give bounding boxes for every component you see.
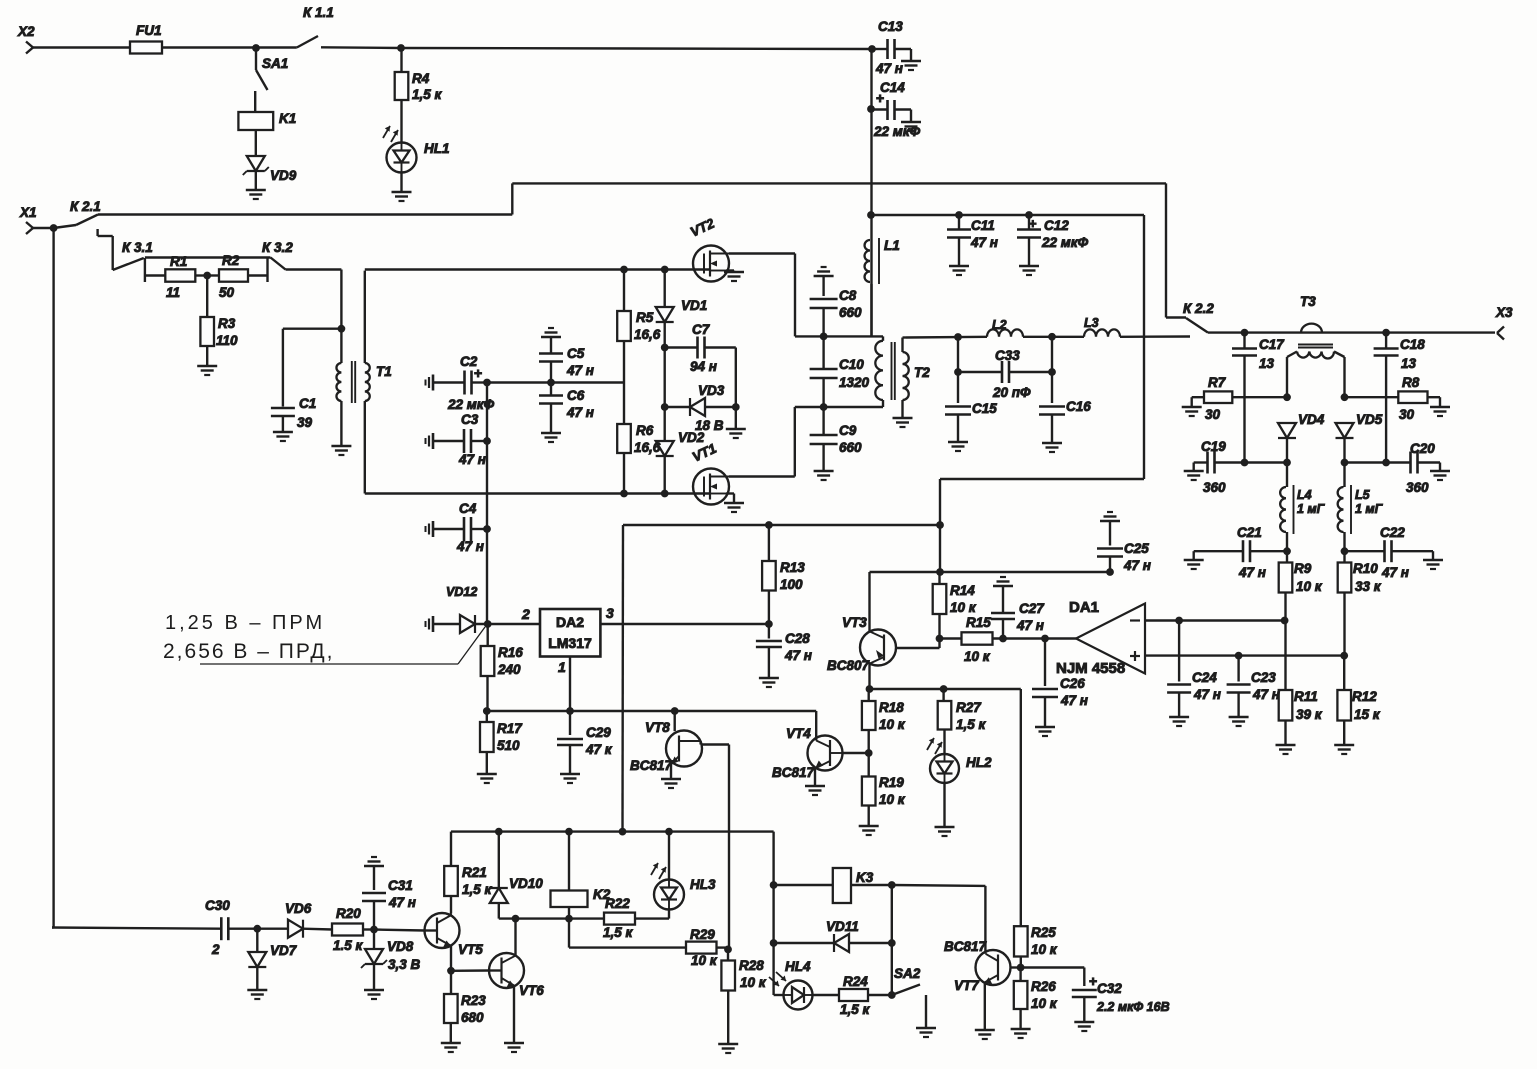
svg-text:C4: C4 [459, 501, 477, 516]
svg-text:R3: R3 [218, 316, 236, 331]
svg-text:C8: C8 [839, 288, 857, 303]
svg-text:C3: C3 [461, 412, 479, 427]
svg-text:FU1: FU1 [136, 23, 162, 38]
svg-text:L3: L3 [1084, 316, 1099, 330]
svg-text:VD9: VD9 [270, 168, 297, 183]
svg-text:L2: L2 [992, 318, 1007, 332]
svg-text:1,5 к: 1,5 к [956, 717, 987, 732]
svg-text:660: 660 [839, 305, 862, 320]
svg-text:C28: C28 [785, 631, 810, 646]
svg-text:C30: C30 [205, 898, 230, 913]
svg-text:15 к: 15 к [1354, 707, 1381, 722]
svg-text:R7: R7 [1208, 375, 1227, 390]
svg-text:240: 240 [497, 662, 521, 677]
svg-text:R12: R12 [1352, 689, 1377, 704]
svg-text:+: + [1029, 216, 1037, 231]
svg-text:2: 2 [521, 606, 530, 622]
svg-text:VT5: VT5 [458, 942, 483, 957]
svg-text:К 3.1: К 3.1 [122, 240, 153, 255]
svg-text:C9: C9 [839, 423, 857, 438]
svg-text:30: 30 [1399, 407, 1415, 422]
svg-text:39 к: 39 к [1296, 707, 1323, 722]
svg-text:360: 360 [1203, 480, 1226, 495]
svg-text:HL2: HL2 [966, 755, 992, 770]
svg-text:R22: R22 [605, 896, 630, 911]
svg-text:C31: C31 [388, 878, 413, 893]
svg-text:BC817: BC817 [772, 765, 816, 780]
svg-text:47 н: 47 н [875, 61, 903, 76]
svg-text:L4: L4 [1297, 488, 1312, 502]
svg-text:VT4: VT4 [786, 726, 811, 741]
svg-text:1: 1 [558, 659, 566, 675]
svg-text:47 н: 47 н [566, 405, 594, 420]
svg-text:47 н: 47 н [1060, 693, 1088, 708]
svg-text:18 В: 18 В [695, 418, 724, 433]
svg-text:C21: C21 [1237, 525, 1262, 540]
svg-text:R1: R1 [170, 254, 187, 269]
svg-text:47 н: 47 н [458, 452, 486, 467]
svg-text:1 мГ: 1 мГ [1355, 502, 1384, 516]
svg-text:R16: R16 [498, 645, 523, 660]
svg-text:C29: C29 [586, 725, 611, 740]
svg-text:C22: C22 [1380, 525, 1405, 540]
svg-text:10 к: 10 к [879, 792, 906, 807]
svg-text:C11: C11 [971, 218, 995, 233]
svg-text:C15: C15 [972, 401, 997, 416]
svg-text:360: 360 [1406, 480, 1429, 495]
svg-text:R19: R19 [879, 775, 904, 790]
svg-text:1,5 к: 1,5 к [462, 882, 493, 897]
svg-text:13: 13 [1401, 356, 1417, 371]
svg-text:94 н: 94 н [690, 359, 717, 374]
svg-text:VD5: VD5 [1356, 412, 1383, 427]
svg-text:BC817: BC817 [944, 939, 988, 954]
svg-text:R10: R10 [1353, 561, 1378, 576]
svg-text:110: 110 [216, 333, 238, 348]
svg-text:11: 11 [166, 285, 180, 300]
svg-text:R4: R4 [412, 71, 430, 86]
svg-text:VD4: VD4 [1298, 412, 1325, 427]
svg-text:R2: R2 [222, 253, 240, 268]
svg-text:C20: C20 [1410, 441, 1435, 456]
svg-text:R27: R27 [956, 700, 982, 715]
svg-text:L5: L5 [1355, 488, 1371, 502]
svg-text:VT8: VT8 [645, 720, 670, 735]
svg-text:VD3: VD3 [698, 383, 725, 398]
svg-text:47 н: 47 н [566, 363, 594, 378]
svg-text:X1: X1 [19, 205, 37, 220]
svg-text:C25: C25 [1124, 541, 1149, 556]
svg-text:NJM 4558: NJM 4558 [1056, 660, 1125, 677]
svg-text:VD8: VD8 [387, 939, 414, 954]
svg-text:1320: 1320 [839, 375, 870, 390]
svg-text:X3: X3 [1495, 305, 1513, 320]
svg-text:R25: R25 [1031, 925, 1056, 940]
svg-text:50: 50 [219, 285, 235, 300]
svg-text:47 н: 47 н [1123, 558, 1151, 573]
svg-text:16,6: 16,6 [634, 327, 661, 342]
svg-text:K3: K3 [856, 870, 874, 885]
svg-text:10 к: 10 к [964, 649, 991, 664]
svg-text:HL3: HL3 [690, 877, 716, 892]
svg-text:100: 100 [780, 577, 803, 592]
svg-text:X2: X2 [17, 24, 35, 39]
svg-text:VT3: VT3 [842, 615, 867, 630]
svg-text:VD7: VD7 [270, 943, 298, 958]
svg-text:T3: T3 [1300, 294, 1316, 309]
svg-text:47 н: 47 н [784, 648, 812, 663]
svg-text:R18: R18 [879, 700, 904, 715]
svg-text:R9: R9 [1294, 561, 1312, 576]
svg-text:47 н: 47 н [1381, 565, 1409, 580]
svg-text:C23: C23 [1251, 670, 1276, 685]
svg-text:C18: C18 [1400, 337, 1425, 352]
svg-text:C6: C6 [567, 388, 585, 403]
svg-text:DA2: DA2 [556, 614, 584, 630]
svg-text:R28: R28 [739, 958, 764, 973]
svg-text:HL1: HL1 [424, 141, 450, 156]
svg-text:К 2.2: К 2.2 [1183, 301, 1214, 316]
svg-text:+: + [1089, 973, 1097, 989]
svg-text:C14: C14 [880, 80, 905, 95]
svg-text:47 н: 47 н [1193, 687, 1221, 702]
svg-text:10 к: 10 к [879, 717, 906, 732]
svg-text:R11: R11 [1294, 689, 1318, 704]
svg-text:C2: C2 [460, 354, 478, 369]
svg-text:C1: C1 [299, 396, 316, 411]
svg-text:2: 2 [211, 942, 220, 957]
svg-text:47 н: 47 н [388, 895, 416, 910]
svg-text:К 2.1: К 2.1 [70, 199, 101, 214]
svg-text:1,5 к: 1,5 к [412, 87, 443, 102]
svg-text:K1: K1 [279, 111, 296, 126]
svg-text:LM317: LM317 [548, 635, 592, 651]
svg-text:13: 13 [1259, 356, 1275, 371]
svg-text:R14: R14 [950, 583, 975, 598]
svg-text:1,5 к: 1,5 к [603, 925, 634, 940]
svg-text:C33: C33 [995, 348, 1020, 363]
svg-text:C12: C12 [1044, 218, 1069, 233]
svg-text:30: 30 [1205, 407, 1221, 422]
svg-text:47 к: 47 к [585, 742, 613, 757]
svg-text:C7: C7 [692, 322, 711, 337]
svg-text:10 к: 10 к [1296, 579, 1323, 594]
svg-text:510: 510 [497, 738, 520, 753]
svg-text:22 мкФ: 22 мкФ [1041, 235, 1089, 250]
svg-text:C24: C24 [1192, 670, 1217, 685]
svg-text:R15: R15 [966, 615, 991, 630]
svg-text:33 к: 33 к [1355, 579, 1382, 594]
svg-text:1.5 к: 1.5 к [333, 938, 364, 953]
svg-text:C27: C27 [1019, 601, 1045, 616]
svg-text:VD12: VD12 [446, 585, 477, 599]
svg-text:C32: C32 [1097, 981, 1122, 996]
svg-text:R20: R20 [336, 906, 361, 921]
svg-text:R23: R23 [461, 993, 486, 1008]
svg-text:R13: R13 [780, 560, 805, 575]
svg-text:2.2 мкФ 16В: 2.2 мкФ 16В [1096, 1000, 1170, 1014]
svg-text:C16: C16 [1066, 399, 1091, 414]
svg-text:660: 660 [839, 440, 862, 455]
svg-text:1 мГ: 1 мГ [1297, 502, 1326, 516]
svg-text:47 н: 47 н [1016, 618, 1044, 633]
svg-text:SA2: SA2 [894, 966, 921, 981]
svg-text:C17: C17 [1259, 337, 1285, 352]
svg-text:47 н: 47 н [970, 235, 998, 250]
svg-text:3: 3 [606, 605, 614, 621]
svg-text:Т1: Т1 [376, 364, 392, 379]
svg-text:DA1: DA1 [1069, 599, 1099, 616]
svg-text:VD1: VD1 [681, 298, 707, 313]
svg-text:BC807: BC807 [827, 658, 871, 673]
svg-text:2,656 В – ПРД,: 2,656 В – ПРД, [163, 640, 335, 663]
svg-text:R5: R5 [636, 310, 654, 325]
svg-text:10 к: 10 к [1031, 996, 1058, 1011]
svg-text:VT6: VT6 [519, 983, 544, 998]
svg-text:HL4: HL4 [785, 959, 811, 974]
svg-text:47 н: 47 н [456, 539, 484, 554]
svg-text:VD11: VD11 [826, 919, 859, 934]
svg-text:R6: R6 [636, 423, 654, 438]
svg-text:10 к: 10 к [950, 600, 977, 615]
svg-text:К 3.2: К 3.2 [262, 240, 293, 255]
svg-text:10 к: 10 к [691, 953, 718, 968]
svg-text:R17: R17 [497, 721, 523, 736]
svg-text:Т2: Т2 [914, 365, 930, 380]
svg-text:1,25 В – ПРМ: 1,25 В – ПРМ [165, 612, 325, 634]
svg-text:SA1: SA1 [262, 56, 288, 71]
svg-text:L1: L1 [884, 238, 900, 253]
svg-text:10 к: 10 к [740, 975, 767, 990]
svg-text:VD10: VD10 [509, 876, 543, 891]
svg-text:VD6: VD6 [285, 901, 312, 916]
svg-text:C5: C5 [567, 346, 585, 361]
svg-text:47 н: 47 н [1252, 687, 1280, 702]
svg-text:R29: R29 [690, 927, 715, 942]
svg-text:39: 39 [297, 415, 313, 430]
svg-text:R8: R8 [1402, 375, 1420, 390]
svg-text:BC817: BC817 [630, 758, 674, 773]
svg-text:VT7: VT7 [954, 978, 980, 993]
svg-text:10 к: 10 к [1031, 942, 1058, 957]
svg-text:3,3 В: 3,3 В [388, 957, 421, 972]
svg-text:C13: C13 [878, 19, 903, 34]
svg-text:C19: C19 [1201, 439, 1226, 454]
svg-text:R21: R21 [462, 865, 487, 880]
svg-text:C10: C10 [839, 357, 864, 372]
svg-text:R26: R26 [1031, 979, 1056, 994]
svg-text:К 1.1: К 1.1 [303, 5, 334, 20]
svg-text:R24: R24 [843, 974, 868, 989]
svg-text:1,5 к: 1,5 к [840, 1002, 871, 1017]
svg-text:22 мкФ: 22 мкФ [873, 124, 921, 139]
svg-text:20 пФ: 20 пФ [992, 385, 1031, 400]
svg-text:47 н: 47 н [1238, 565, 1266, 580]
svg-text:680: 680 [461, 1010, 484, 1025]
svg-text:C26: C26 [1060, 676, 1085, 691]
